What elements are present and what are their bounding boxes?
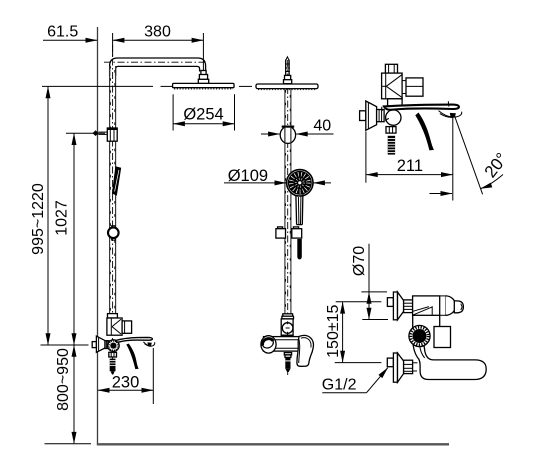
svg-text:Ø70: Ø70 [351, 246, 368, 276]
tr spout mouth [439, 111, 462, 117]
left faucet: right block [122, 321, 132, 333]
svg-text:40: 40 [313, 118, 331, 135]
head center ext line (380 right) [202, 33, 204, 70]
middle pipe texture ticks [285, 90, 287, 312]
hose end (dark) [297, 239, 302, 259]
dim Ø109 [224, 182, 286, 184]
middle spire tip [286, 57, 289, 61]
left faucet: spout mouth [143, 342, 154, 346]
dim 40 [261, 133, 280, 135]
svg-text:211: 211 [397, 157, 423, 175]
floor line [97, 443, 449, 445]
head spray hatch [174, 88, 233, 90]
dim 61.5 [43, 39, 97, 41]
tr inlet stem [360, 111, 366, 121]
slider bracket (middle) [278, 227, 283, 229]
left faucet: body box [107, 318, 122, 335]
middle faucet: left cap [261, 336, 276, 353]
br bottom flange cone [398, 353, 404, 382]
left faucet: wall flange [96, 336, 105, 352]
tr trigger [415, 113, 434, 151]
arm-to-head nut [201, 71, 206, 75]
vertical pipe (left column) [109, 66, 111, 314]
dim 211 [365, 132, 367, 183]
svg-text:800~950: 800~950 [55, 348, 72, 411]
svg-text:Ø254: Ø254 [183, 106, 223, 124]
left faucet: inlet stem [92, 342, 96, 348]
hand shower handle [296, 194, 303, 225]
tr wall flange [366, 101, 377, 130]
pipe texture ticks [109, 66, 111, 313]
middle column centerline [287, 60, 289, 375]
tr lever [384, 105, 459, 110]
wall line [97, 27, 99, 445]
svg-text:Ø109: Ø109 [228, 167, 268, 185]
svg-text:61.5: 61.5 [47, 24, 78, 41]
slider collar [107, 128, 117, 141]
middle spire nut [285, 75, 291, 80]
middle faucet: upper housing [281, 319, 293, 336]
br bottom inlet stem [387, 358, 393, 367]
tr valve circle [386, 110, 401, 125]
arm centerline [104, 61, 206, 63]
br body/spout [412, 315, 414, 341]
svg-text:G1/2: G1/2 [322, 377, 357, 394]
tr lower body [388, 99, 403, 106]
slider ring [112, 226, 116, 228]
br top body [413, 296, 440, 315]
shower arm (left view) [110, 58, 206, 76]
tr threaded rod [388, 136, 395, 155]
middle faucet: right handle [297, 335, 314, 366]
tr flange nut [377, 110, 385, 122]
br bottom nut [404, 360, 413, 373]
dim 20 degrees [455, 116, 483, 194]
handshower in holder (dark blade) [112, 166, 121, 196]
br right square [434, 327, 451, 348]
middle faucet: outlet [284, 353, 291, 355]
tr top stub [385, 64, 397, 73]
br knob [409, 325, 430, 346]
dim 230 [152, 348, 154, 404]
br bottom nut to body link [413, 362, 418, 364]
svg-text:380: 380 [144, 24, 171, 41]
wall bracket [93, 130, 99, 136]
left faucet: flange nut [105, 341, 109, 349]
ball joint [280, 126, 295, 143]
pipe centerline (left column) [112, 45, 114, 373]
dim Ø254 [172, 94, 174, 130]
dim 800~950 [73, 345, 75, 443]
tr hex nut [386, 127, 396, 134]
svg-text:230: 230 [112, 374, 140, 392]
middle head bar (edge view) [256, 84, 318, 89]
br top flange cap [393, 292, 397, 320]
br top flange cone [398, 292, 404, 320]
svg-text:995~1220: 995~1220 [30, 183, 47, 255]
dim 150±15 [336, 301, 382, 303]
left faucet: valve knob [108, 340, 120, 352]
dim 1027 [66, 132, 105, 134]
left faucet: lever [116, 337, 153, 342]
left faucet: hex outlet [109, 352, 117, 357]
dim 995~1220 [42, 85, 153, 87]
tr main body [382, 73, 403, 99]
middle faucet: collar nut [283, 314, 293, 317]
br bottom flange cap [393, 353, 397, 382]
dim Ø70 [368, 244, 370, 320]
br diverter [440, 295, 447, 297]
left faucet: threaded rod [110, 359, 116, 372]
br top nut [404, 300, 413, 313]
svg-text:150±15: 150±15 [325, 304, 342, 357]
middle faucet: body [264, 337, 302, 352]
middle pipe [284, 89, 286, 314]
br top inlet stem [387, 298, 393, 307]
shower head plate (left view) [173, 83, 234, 87]
left faucet: trigger [126, 344, 139, 370]
left faucet: collar nut [108, 314, 118, 318]
hand shower head [287, 170, 313, 196]
head axis centerline (left view) [161, 85, 173, 87]
dim 380 [112, 33, 114, 57]
svg-text:1027: 1027 [54, 200, 71, 236]
spout height tick [41, 344, 89, 346]
tr right block [406, 78, 423, 96]
